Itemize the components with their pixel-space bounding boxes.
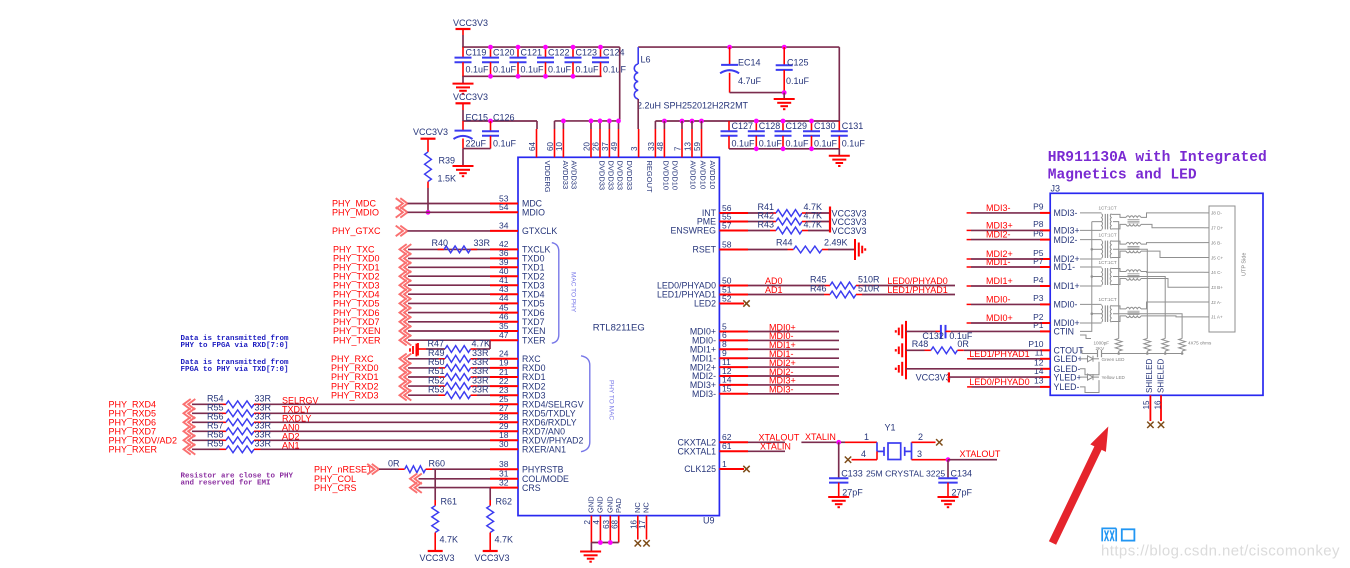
svg-text:ENSWREG: ENSWREG (671, 226, 717, 236)
no-connect X pin 16 (635, 540, 641, 546)
wire GLED- to ground (906, 368, 1040, 370)
pin 48 DVDD10 (top) (663, 129, 665, 157)
svg-text:14: 14 (1034, 366, 1044, 376)
svg-text:MDI3-: MDI3- (692, 389, 716, 399)
pin 9 MDI1- (719, 357, 748, 359)
capacitor C127 0.1uF (728, 121, 730, 131)
pin 25 RXD4/SELRGV (490, 403, 518, 405)
no-connect X pin 17 (643, 540, 649, 546)
svg-text:2.49K: 2.49K (824, 238, 848, 248)
svg-text:R43: R43 (758, 220, 775, 230)
svg-text:59: 59 (693, 142, 702, 151)
svg-text:AVDD10: AVDD10 (688, 161, 697, 190)
svg-text:VCC3V3: VCC3V3 (832, 226, 867, 236)
pin P9 MDI3- (J3) (1040, 212, 1050, 214)
connector J3 body (1050, 193, 1263, 395)
svg-text:MDI1+: MDI1+ (986, 276, 1013, 286)
pin 10 AVDD33 (top) (562, 129, 564, 157)
yellow LED (J3) (1080, 376, 1088, 378)
transformer T1 secondary center tap (1113, 222, 1119, 339)
inductor L6 2.2uH (637, 47, 639, 64)
svg-text:AVDD10: AVDD10 (708, 161, 717, 190)
ground (CTIN) (905, 321, 907, 342)
svg-text:16: 16 (1154, 400, 1163, 409)
svg-text:C120: C120 (493, 47, 515, 57)
capacitor EC14 4.7uF (727, 45, 732, 50)
svg-text:VCC3V3: VCC3V3 (420, 553, 455, 563)
svg-text:PHY_CRS: PHY_CRS (314, 483, 357, 493)
wire MDI1+ (J3) (967, 285, 971, 287)
junction dots cap bank (488, 45, 493, 50)
resistor R54 33R (220, 403, 227, 405)
resistor R41 4.7K (748, 212, 770, 214)
pin 57 ENSWREG (719, 230, 748, 232)
capacitor C125 0.1uF (782, 45, 787, 50)
resistor R49 33R (439, 358, 446, 360)
pin 14 YLED+ (J3) (1040, 376, 1050, 378)
ground (R47) (417, 343, 419, 356)
wire 1.0V rail right edge (838, 47, 840, 121)
svg-text:UTP Side: UTP Side (1242, 253, 1248, 276)
svg-text:J8 D-: J8 D- (1211, 211, 1222, 216)
wire MDI3+ (J3) (967, 229, 971, 231)
svg-text:CRS: CRS (522, 483, 541, 493)
pin 29 RXD7/AN0 (490, 430, 518, 432)
svg-text:0.1uF: 0.1uF (786, 138, 810, 148)
pin P7 MD1- (J3) (1040, 266, 1050, 268)
svg-text:DVDD33: DVDD33 (606, 161, 615, 191)
power port VCC3V3 (R62) (483, 550, 498, 552)
pin P3 MDI0- (J3) (1040, 303, 1050, 305)
IC U9 RTL8211EG body (518, 157, 719, 515)
svg-text:510R: 510R (858, 283, 880, 293)
wire R39 to MDIO (427, 182, 429, 188)
crystal pin 2 (unconnected) (912, 441, 936, 443)
svg-text:0.1uF: 0.1uF (548, 65, 572, 75)
svg-text:1CT:1CT: 1CT:1CT (1099, 206, 1117, 211)
svg-text:Yellow LED: Yellow LED (1102, 375, 1126, 380)
svg-text:Green LED: Green LED (1102, 357, 1126, 362)
resistor R58 33R (220, 439, 227, 441)
svg-text:and reserved for EMI: and reserved for EMI (181, 479, 271, 487)
wire PHY_RXC (408, 358, 439, 360)
wire PHY_TXEN (408, 330, 490, 332)
wire PHY_RXD6 (192, 421, 220, 423)
wire DVDD10/AVDD10 bus (655, 120, 839, 122)
wire PHY_RXD2 (408, 385, 439, 387)
resistor R45 510R (824, 285, 830, 287)
svg-text:1000pF: 1000pF (1094, 340, 1110, 345)
wire YLED- (967, 386, 971, 388)
pin 11 MDI2+ (719, 366, 748, 368)
resistor R48 0R (906, 349, 925, 351)
pin 27 RXD5/TXDLY (490, 412, 518, 414)
wire PHY_RXD4 (192, 403, 220, 405)
wire PHY_TXD5 (408, 302, 490, 304)
pin 36 TXD0 (490, 257, 518, 259)
capacitor C124 0.1uF (600, 47, 602, 58)
svg-text:61: 61 (722, 441, 732, 451)
ground (below EC15) (462, 149, 464, 166)
transformer T1 choke (1111, 214, 1126, 217)
svg-text:0.1uF: 0.1uF (521, 65, 545, 75)
svg-text:4.7K: 4.7K (495, 535, 514, 545)
junction dots DVDD10 bus (662, 119, 667, 124)
svg-text:VCC3V3: VCC3V3 (453, 18, 488, 28)
svg-text:R39: R39 (439, 156, 456, 166)
wire MDI3- (748, 393, 839, 395)
wire PHY_TXD1 (408, 266, 490, 268)
pin P4 MDI1+ (J3) (1040, 285, 1050, 287)
pin 12 MDI2- (719, 375, 748, 377)
pin 68 PAD (bottom) (618, 516, 620, 543)
wire PHY_RXD3 (408, 394, 439, 396)
pin 39 TXD1 (490, 266, 518, 268)
pin 37 DVDD33 (top) (608, 129, 610, 157)
wire AVDD33/DVDD33 bus (555, 120, 620, 122)
svg-text:SHIELED: SHIELED (1145, 359, 1154, 393)
pin 60 AVDD33 (top) (554, 129, 556, 157)
svg-text:R62: R62 (496, 497, 513, 507)
wire MDI2- (748, 375, 839, 377)
svg-text:37: 37 (601, 142, 610, 151)
svg-text:15: 15 (1142, 400, 1151, 409)
capacitor C133 27pF (838, 442, 840, 478)
svg-text:P4: P4 (1033, 275, 1044, 285)
svg-text:EC14: EC14 (738, 57, 761, 67)
wire VCC3V3 to VDDERG bus (462, 110, 464, 121)
pin 19 RXD0 (490, 367, 518, 369)
svg-text:3: 3 (630, 146, 639, 151)
pin 3 REGOUT (top) (638, 129, 640, 157)
svg-text:R44: R44 (776, 238, 793, 248)
crystal pin 4 (unconnected) (852, 459, 878, 461)
svg-text:LED2: LED2 (694, 299, 716, 309)
svg-text:DVDD10: DVDD10 (671, 161, 680, 191)
svg-text:CKXTAL1: CKXTAL1 (678, 447, 717, 457)
pin 23 RXD3 (490, 394, 518, 396)
wire 3.3V cap bottom bus (462, 75, 601, 77)
svg-text:CLK125: CLK125 (684, 464, 716, 474)
svg-text:YLED+: YLED+ (1054, 372, 1082, 382)
resistor R62 4.7K (CRS pullup) (489, 488, 491, 500)
svg-text:Y1: Y1 (885, 423, 896, 433)
svg-text:26: 26 (591, 142, 600, 151)
resistor R56 33R (220, 421, 227, 423)
wire 3.3V top bus (462, 46, 620, 48)
wire XTALIN pin61 (748, 450, 785, 452)
wire XTALOUT pin62 (748, 441, 785, 443)
svg-text:1CT:1CT: 1CT:1CT (1099, 297, 1117, 302)
svg-text:0.1uF: 0.1uF (493, 65, 517, 75)
pin P2 MDI0+ (J3) (1040, 322, 1050, 324)
svg-text:C124: C124 (603, 47, 625, 57)
svg-text:VCC3V3: VCC3V3 (475, 553, 510, 563)
wire PHY_RXD7 (192, 430, 220, 432)
svg-text:0.1uF: 0.1uF (786, 76, 810, 86)
pin P5 MDI2+ (J3) (1040, 258, 1050, 260)
wire LED1/PHYAD1 (862, 294, 955, 296)
svg-text:1: 1 (864, 432, 869, 442)
svg-text:AVDD33: AVDD33 (561, 161, 570, 190)
svg-text:52: 52 (722, 293, 732, 303)
svg-text:MDI2-: MDI2- (986, 230, 1011, 240)
pin 64 VDDERG (top) (536, 129, 538, 157)
capacitor C130 0.1uF (811, 121, 813, 131)
svg-text:J2 A-: J2 A- (1211, 300, 1222, 305)
svg-text:68: 68 (610, 519, 619, 528)
wire MDI2+ (748, 366, 839, 368)
pin 22 RXD2 (490, 385, 518, 387)
svg-text:25M CRYSTAL 3225: 25M CRYSTAL 3225 (866, 468, 945, 478)
svg-text:4X75 ohms: 4X75 ohms (1188, 340, 1212, 345)
svg-text:16: 16 (630, 519, 639, 528)
svg-text:4.7K: 4.7K (472, 338, 491, 348)
svg-text:PHY_RXER: PHY_RXER (109, 445, 158, 455)
svg-text:L6: L6 (641, 55, 651, 65)
svg-text:MDI0-: MDI0- (1054, 300, 1078, 310)
svg-text:0.1uF: 0.1uF (493, 138, 517, 148)
ground (below C125) (783, 93, 785, 99)
svg-text:EC15: EC15 (466, 112, 489, 122)
svg-text:17: 17 (638, 519, 647, 528)
pin 51 LED1/PHYAD1 (719, 294, 748, 296)
svg-text:J5 C+: J5 C+ (1211, 255, 1223, 260)
pin 58 RSET (719, 249, 748, 251)
transformer T3 secondary center tap (1113, 277, 1165, 339)
wire PHY_TXD2 (408, 275, 490, 277)
svg-text:15: 15 (722, 384, 732, 394)
svg-text:C133: C133 (841, 468, 863, 478)
wire VCC3V3 to cap bus (462, 35, 464, 47)
svg-text:VCC3V3: VCC3V3 (453, 92, 488, 102)
svg-text:J1 A+: J1 A+ (1211, 315, 1223, 320)
wire PHY_MDIO (408, 211, 491, 213)
svg-text:PHY_RXD3: PHY_RXD3 (331, 390, 379, 400)
svg-text:P9: P9 (1033, 202, 1044, 212)
svg-text:XTALIN: XTALIN (760, 441, 791, 451)
svg-text:30: 30 (499, 439, 509, 449)
CTIN stub inside (1080, 335, 1091, 339)
svg-text:0.1uF: 0.1uF (576, 65, 600, 75)
svg-text:MDI3-: MDI3- (1054, 208, 1078, 218)
svg-text:64: 64 (528, 142, 537, 151)
ground (R48) (905, 340, 907, 361)
pin 45 TXD6 (490, 312, 518, 314)
wire MDI1- (748, 357, 839, 359)
pin P6 MDI2- (J3) (1040, 239, 1050, 241)
wire EC14/C125 bottoms (730, 92, 785, 94)
svg-text:PHY to FPGA via RXD[7:0]: PHY to FPGA via RXD[7:0] (181, 342, 289, 350)
svg-text:2.2uH SPH252012H2R2MT: 2.2uH SPH252012H2R2MT (637, 101, 749, 111)
svg-text:48: 48 (656, 142, 665, 151)
wire EC15/C126 bottoms (463, 148, 491, 150)
resistor R60 0R (399, 468, 405, 470)
resistor R52 33R (439, 385, 446, 387)
svg-text:58: 58 (722, 239, 732, 249)
svg-text:0R: 0R (388, 458, 400, 468)
wire PHY_RXER (192, 448, 220, 450)
svg-text:10: 10 (555, 142, 564, 151)
transformer T2 primary center tap (1092, 248, 1102, 250)
svg-text:PHY TO MAC: PHY TO MAC (608, 380, 615, 420)
pin 11 GLED+ (J3) (1040, 358, 1050, 360)
pin 4 GND (bottom) (599, 516, 601, 543)
svg-text:J4 C-: J4 C- (1211, 270, 1222, 275)
svg-text:DVDD10: DVDD10 (662, 161, 671, 191)
pin P8 MDI3+ (J3) (1040, 229, 1050, 231)
svg-text:3: 3 (917, 449, 922, 459)
wire 3.3V bus right edge down to DVDD33 bus (619, 47, 621, 121)
svg-text:33R: 33R (474, 238, 491, 248)
red arrow annotation (1053, 446, 1100, 543)
svg-text:0.1uF: 0.1uF (842, 138, 866, 148)
wire XTALIN to crystal (801, 441, 838, 443)
capacitor C119 0.1uF (462, 47, 464, 58)
svg-text:C126: C126 (493, 112, 515, 122)
svg-text:PHYRSTB: PHYRSTB (522, 464, 564, 474)
capacitor C126 0.1uF (488, 119, 493, 124)
pin 41 TXD3 (490, 284, 518, 286)
wire MDI3- (J3) (967, 212, 971, 214)
pin 34 GTXCLK (490, 230, 518, 232)
svg-text:7: 7 (673, 146, 682, 151)
svg-text:PHY_TXER: PHY_TXER (333, 335, 381, 345)
J3 UTP side pin box (1209, 206, 1235, 332)
power port VCC3V3 (R61) (428, 550, 443, 552)
wire PHY_MDC (408, 203, 491, 205)
pin 17 NC (bottom) (646, 516, 648, 540)
svg-text:MDI2-: MDI2- (1054, 235, 1078, 245)
svg-text:0.1uF: 0.1uF (466, 65, 490, 75)
svg-text:REGOUT: REGOUT (645, 161, 654, 194)
wire C127-C131 bottom bus (729, 148, 839, 150)
power bar VCC3V3 (R41-R43) (829, 207, 831, 233)
wire C132 to CTIN (951, 330, 1040, 332)
pin 2 GND (bottom) (590, 516, 592, 543)
svg-text:J7 D+: J7 D+ (1211, 226, 1223, 231)
resistor R50 33R (439, 367, 446, 369)
pin 14 MDI3+ (719, 384, 748, 386)
svg-text:DVDD33: DVDD33 (597, 161, 606, 191)
svg-text:J3: J3 (1051, 183, 1061, 193)
ground (RSET) (854, 239, 856, 260)
pin 63 GND (bottom) (609, 516, 611, 543)
wire RXDLY to chip (261, 421, 491, 423)
wire MDI1+ (748, 348, 839, 350)
wire MDI0+ (J3) (967, 322, 971, 324)
ground (below C119) (462, 76, 464, 83)
svg-text:33: 33 (647, 142, 656, 151)
wire PHY_TXD6 (408, 312, 490, 314)
svg-text:YLED-: YLED- (1054, 382, 1080, 392)
svg-text:1: 1 (722, 459, 727, 469)
pin 56 INT (719, 212, 748, 214)
svg-text:R60: R60 (429, 458, 446, 468)
transformer T3 secondary wires (1141, 271, 1204, 274)
wire AD2 to chip (261, 439, 491, 441)
ground (C134) (938, 496, 959, 498)
wire MDI0+ (748, 331, 839, 333)
svg-text:R61: R61 (441, 497, 458, 507)
svg-text:GND: GND (587, 496, 596, 513)
svg-text:4: 4 (592, 519, 601, 524)
pin 26 DVDD33 (top) (599, 129, 601, 157)
wire PHY_TXD3 (408, 284, 490, 286)
resistor R42 4.7K (748, 221, 770, 223)
svg-text:C125: C125 (787, 57, 809, 67)
transformer T1 secondary wires (1141, 213, 1204, 218)
resistor R57 33R (220, 430, 227, 432)
svg-text:PHY_GTXC: PHY_GTXC (332, 226, 381, 236)
svg-text:P7: P7 (1033, 256, 1044, 266)
wire GLED+ (967, 358, 971, 360)
pin 16 NC (bottom) (637, 516, 639, 540)
pin 16 SHIELED (J3) (1160, 395, 1162, 421)
svg-text:SHIELED: SHIELED (1157, 359, 1166, 393)
svg-text:LED0/PHYAD0: LED0/PHYAD0 (969, 377, 1029, 387)
svg-text:0.1uF: 0.1uF (759, 138, 783, 148)
wire PHY_CRS (419, 487, 491, 489)
no-connect X pin 16 (1158, 422, 1164, 428)
green LED (J3) (1080, 358, 1088, 360)
pin 13 AVDD10 (top) (691, 129, 693, 157)
pin 38 PHYRSTB (490, 468, 518, 470)
transformer T4 secondary center tap (1113, 314, 1182, 339)
pin 61 CKXTAL1 (719, 450, 748, 452)
ground (below C131) (838, 149, 840, 156)
pin 24 RXC (490, 358, 518, 360)
svg-text:J6 B-: J6 B- (1211, 240, 1222, 245)
svg-text:R48: R48 (912, 339, 929, 349)
svg-text:PAD: PAD (614, 498, 623, 513)
wire SELRGV to chip (261, 403, 491, 405)
wire MDI0- (J3) (967, 303, 971, 305)
resistor R47 4.7K (TXER pulldown) (489, 340, 491, 349)
svg-text:R40: R40 (432, 238, 449, 248)
pin 6 MDI0- (719, 339, 748, 341)
wire PHY_RXD1 (408, 376, 439, 378)
wire MDI2- (J3) (967, 239, 971, 241)
pin 32 CRS (490, 487, 518, 489)
svg-text:RXER/AN1: RXER/AN1 (522, 445, 566, 455)
pin 5 MDI0+ (719, 331, 748, 333)
svg-text:XTALIN: XTALIN (805, 432, 836, 442)
pin 59 AVDD10 (top) (701, 129, 703, 157)
ground (GLED-) (905, 358, 907, 379)
svg-text:P3: P3 (1033, 293, 1044, 303)
svg-text:RTL8211EG: RTL8211EG (593, 323, 645, 334)
pin 43 TXD4 (490, 293, 518, 295)
pin 28 RXD6/RXDLY (490, 421, 518, 423)
svg-text:R46: R46 (810, 283, 827, 293)
capacitor C123 0.1uF (572, 47, 574, 58)
svg-text:MD1-: MD1- (1054, 262, 1076, 272)
svg-text:VCC3V3: VCC3V3 (916, 373, 951, 383)
svg-text:VDDERG: VDDERG (543, 161, 552, 193)
svg-text:MDI0+: MDI0+ (986, 313, 1013, 323)
junction R39-MDIO (426, 210, 431, 215)
wire PHY_COL (419, 478, 491, 480)
svg-text:MDI1-: MDI1- (986, 257, 1011, 267)
pin P10 CTOUT (J3) (1040, 349, 1050, 351)
svg-text:47: 47 (499, 330, 509, 340)
wire AD1 (748, 294, 824, 296)
wire TXDLY to chip (261, 412, 491, 414)
pin 40 TXD2 (490, 275, 518, 277)
pin 62 CKXTAL2 (719, 441, 748, 443)
wire PHY_TXD7 (408, 321, 490, 323)
